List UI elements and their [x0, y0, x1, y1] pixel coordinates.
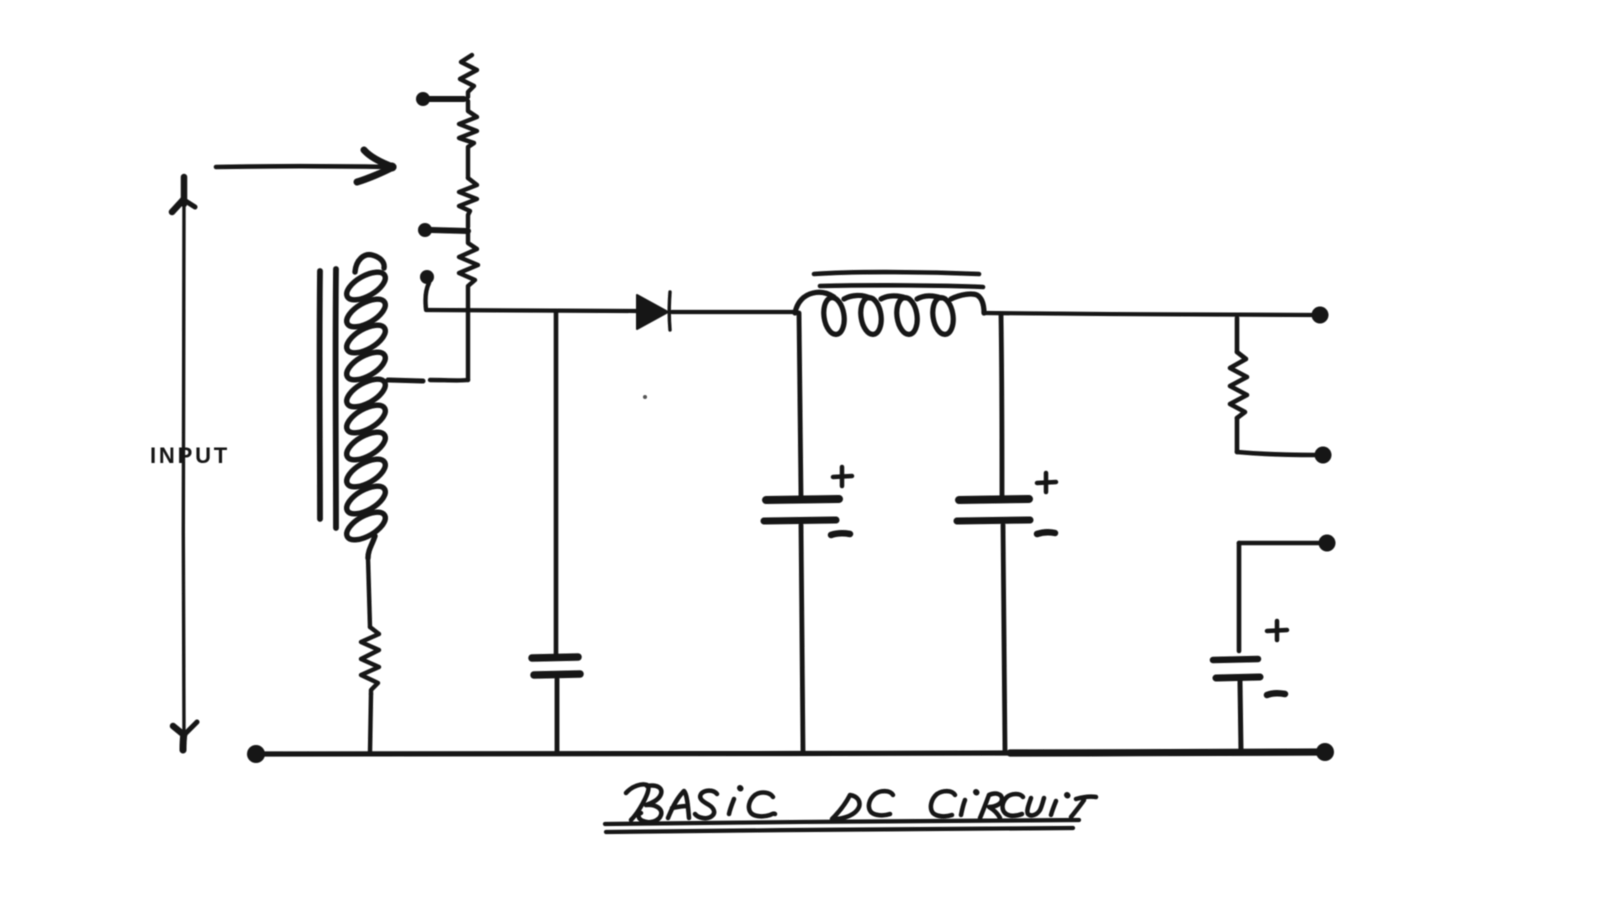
wire main horizontal left	[426, 310, 636, 311]
svg-text:INPUT: INPUT	[150, 443, 230, 468]
wire inductor to right terminal	[984, 313, 1313, 315]
title BASIC DC CIRCUIT	[605, 784, 1096, 832]
transformer T1 winding	[342, 255, 389, 558]
transformer T1 core	[320, 269, 336, 528]
wire T3 to battery	[1239, 543, 1319, 651]
letter i2	[961, 800, 965, 815]
polarity minus C2	[1037, 532, 1055, 534]
wire diode to inductor	[672, 310, 797, 314]
resistor R3	[361, 558, 379, 752]
letter C4	[1003, 794, 1023, 816]
terminal node T1	[1312, 307, 1329, 324]
letter T	[1071, 797, 1096, 817]
letter U	[1027, 798, 1044, 815]
bottom rail left dot	[247, 745, 265, 763]
capacitor C1	[764, 499, 839, 752]
letter A	[668, 791, 689, 818]
terminal node T3	[1319, 535, 1336, 552]
wire bottom rail	[256, 752, 1326, 755]
letter S	[695, 791, 717, 819]
tap 1 terminal	[416, 92, 464, 106]
inductor L1 winding	[795, 292, 984, 335]
arrow annotation horizontal	[216, 150, 397, 182]
letter i	[729, 799, 734, 814]
letter i3	[1051, 801, 1056, 815]
underline 2	[606, 828, 1073, 832]
polarity minus C1	[831, 533, 850, 535]
underline 1	[605, 820, 1079, 824]
letter B	[626, 784, 648, 820]
polarity plus C2	[1037, 473, 1056, 492]
wire transformer tap to divider	[388, 380, 423, 381]
diode D1	[637, 292, 670, 330]
tap 2 terminal	[418, 223, 468, 237]
polarity plus battery	[1267, 621, 1287, 640]
letter C2	[869, 791, 893, 815]
polarity minus battery	[1267, 693, 1285, 695]
battery B1	[1213, 659, 1260, 753]
polarity plus C1	[833, 467, 852, 486]
wire junction to capacitor C2	[1001, 314, 1002, 497]
inductor L1 core	[814, 272, 983, 287]
capacitor C2	[957, 499, 1030, 751]
wire junction to capacitor C1	[799, 313, 801, 497]
terminal node T4	[1316, 743, 1334, 761]
resistor chain R1 (tapped divider)	[430, 55, 478, 380]
tap 3 terminal to main wire	[420, 270, 434, 309]
input arrow vertical	[172, 177, 197, 753]
stray ink speck	[643, 395, 647, 399]
terminal node T2	[1315, 447, 1332, 464]
capacitor C3	[532, 657, 580, 752]
wire junction to capacitor C3	[554, 311, 559, 654]
letter C3	[931, 791, 955, 816]
letter D	[832, 795, 860, 819]
resistor R2	[1230, 318, 1315, 455]
letter C	[749, 793, 775, 817]
letter R	[980, 794, 1002, 818]
